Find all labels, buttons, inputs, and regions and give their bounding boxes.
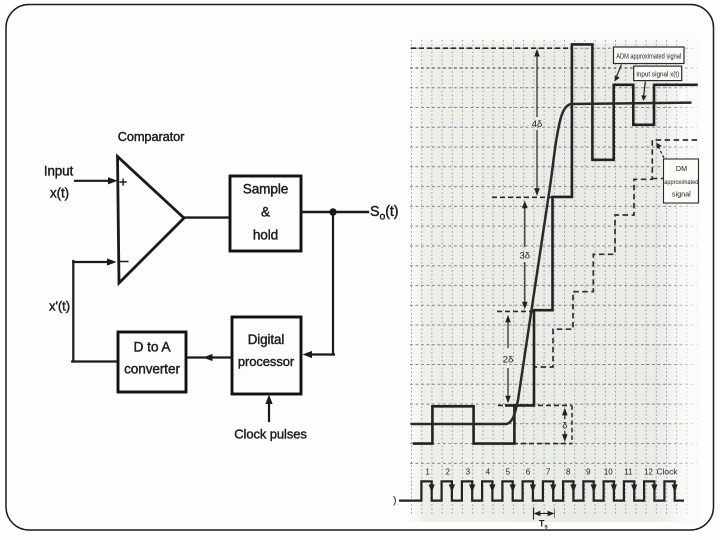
clock sampling arrows: [429, 484, 678, 492]
svg-text:1: 1: [425, 468, 430, 477]
Ts marker ticks: [533, 508, 535, 520]
Ts double arrow: [536, 513, 552, 515]
svg-text:processor: processor: [238, 354, 295, 369]
svg-text:&: &: [261, 205, 270, 220]
svg-text:7: 7: [546, 468, 551, 477]
node junction: [329, 208, 336, 215]
svg-text:ADM approximated signal: ADM approximated signal: [616, 51, 681, 60]
svg-text:converter: converter: [124, 362, 180, 377]
arrow to DM staircase (dashed): [659, 148, 664, 159]
block sample and hold: [230, 176, 301, 251]
wire feedback to - input: [73, 261, 109, 263]
arrow from ADM box: [616, 65, 621, 78]
svg-text:Sample: Sample: [243, 182, 289, 197]
arrow from Input box: [644, 82, 646, 97]
wire comparator output: [183, 216, 230, 218]
wire feedback bottom horizontal: [72, 360, 118, 362]
callout box Input signal x(t): [634, 66, 682, 81]
svg-text:2δ: 2δ: [503, 355, 514, 366]
wire feedback vertical: [72, 261, 74, 362]
marker dashed line y405: [498, 404, 572, 406]
svg-text:): ): [393, 495, 397, 507]
svg-text:x'(t): x'(t): [49, 299, 70, 314]
svg-text:4δ: 4δ: [532, 119, 543, 130]
wire junction down: [332, 212, 334, 355]
wire digital processor to DtoA: [187, 356, 232, 358]
marker dashed line y443: [513, 443, 573, 445]
marker dashed line y311: [497, 310, 535, 312]
svg-text:12: 12: [644, 468, 653, 477]
svg-text:10: 10: [604, 468, 613, 477]
ADM approximated signal staircase: [413, 44, 698, 443]
marker dashed line y197: [492, 196, 552, 198]
svg-text:–: –: [120, 253, 129, 270]
wire sample-hold output: [301, 211, 368, 213]
marker arrow 4-delta: [536, 54, 538, 191]
wire into digital processor: [309, 353, 334, 355]
svg-text:Digital: Digital: [248, 332, 285, 347]
svg-text:Clock: Clock: [657, 467, 679, 477]
svg-text:Clock pulses: Clock pulses: [234, 427, 307, 442]
clock numbers: [425, 468, 653, 477]
svg-text:11: 11: [624, 468, 633, 477]
svg-text:6: 6: [526, 468, 531, 477]
op-amp comparator U1: [118, 157, 185, 284]
svg-text:2: 2: [445, 468, 450, 477]
marker arrow 3-delta: [524, 205, 526, 305]
DM staircase stub under box: [652, 178, 663, 180]
svg-text:Comparator: Comparator: [118, 129, 185, 144]
marker arrow delta: [564, 411, 566, 439]
input signal x(t) curve: [411, 103, 692, 424]
svg-text:+: +: [119, 174, 127, 190]
wire input to +: [75, 180, 110, 182]
marker arrow 2-delta: [507, 319, 509, 399]
svg-text:δ: δ: [562, 421, 567, 431]
svg-text:signal: signal: [672, 189, 691, 198]
block digital processor: [232, 317, 301, 394]
svg-text:3: 3: [466, 468, 471, 477]
marker dashed vertical x572: [571, 405, 573, 443]
callout box ADM approximated signal: [614, 47, 685, 64]
svg-text:approximated: approximated: [664, 179, 698, 186]
svg-text:Input signal x(t): Input signal x(t): [636, 70, 679, 79]
block D to A converter: [118, 332, 186, 392]
svg-text:3δ: 3δ: [520, 251, 531, 262]
svg-text:8: 8: [566, 468, 571, 477]
clock waveform: [399, 481, 684, 500]
svg-text:5: 5: [506, 468, 511, 477]
svg-text:DM: DM: [676, 164, 687, 173]
svg-text:hold: hold: [253, 228, 278, 243]
svg-text:9: 9: [586, 468, 591, 477]
callout box DM approximated signal: [664, 159, 699, 203]
svg-text:D to A: D to A: [134, 340, 172, 355]
wire clock pulses arrow: [268, 401, 270, 421]
svg-text:Input: Input: [44, 164, 74, 179]
marker dashed line top (4-delta upper ref): [411, 47, 573, 49]
svg-text:4: 4: [486, 468, 491, 477]
svg-text:x(t): x(t): [50, 186, 69, 201]
DM approximated signal dashed staircase: [534, 140, 698, 405]
